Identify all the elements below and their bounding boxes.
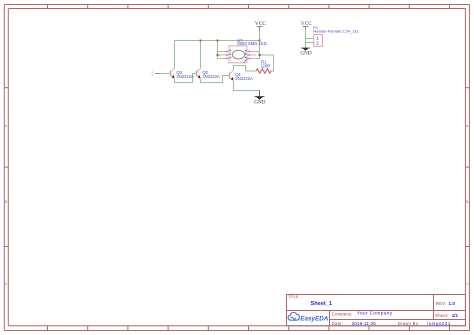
- svg-text:Sheet:: Sheet:: [435, 313, 449, 318]
- svg-text:Company:: Company:: [332, 311, 353, 316]
- svg-text:luisgs231: luisgs231: [427, 321, 450, 327]
- svg-text:Your Company: Your Company: [357, 311, 393, 317]
- svg-text:Header-Female 2.54_1x2: Header-Female 2.54_1x2: [313, 29, 359, 34]
- svg-text:120R: 120R: [260, 64, 270, 69]
- svg-text:B: B: [466, 199, 469, 204]
- svg-text:2N2222A: 2N2222A: [176, 74, 194, 79]
- svg-text:GND: GND: [300, 51, 311, 57]
- svg-text:2N2222A: 2N2222A: [235, 76, 253, 81]
- svg-text:GND: GND: [254, 99, 265, 105]
- svg-text:A: A: [466, 123, 469, 128]
- svg-text:Drawn By:: Drawn By:: [398, 321, 420, 326]
- svg-text:B: B: [5, 199, 8, 204]
- svg-text:C: C: [466, 281, 469, 286]
- svg-text:2019-11-25: 2019-11-25: [352, 321, 377, 327]
- svg-text:5050 SMD-LED: 5050 SMD-LED: [237, 41, 266, 46]
- svg-text:A: A: [5, 123, 8, 128]
- svg-text:Sheet_1: Sheet_1: [311, 301, 332, 307]
- svg-text:1.0: 1.0: [449, 301, 456, 306]
- svg-text:1/1: 1/1: [452, 313, 459, 318]
- svg-text:C: C: [5, 281, 8, 286]
- svg-text:REV:: REV:: [436, 301, 447, 306]
- svg-text:Date:: Date:: [332, 321, 343, 326]
- svg-text:VCC: VCC: [255, 21, 266, 27]
- svg-text:EasyEDA: EasyEDA: [300, 315, 328, 322]
- svg-text:2N2222A: 2N2222A: [202, 74, 220, 79]
- svg-text:TITLE:: TITLE:: [288, 295, 299, 299]
